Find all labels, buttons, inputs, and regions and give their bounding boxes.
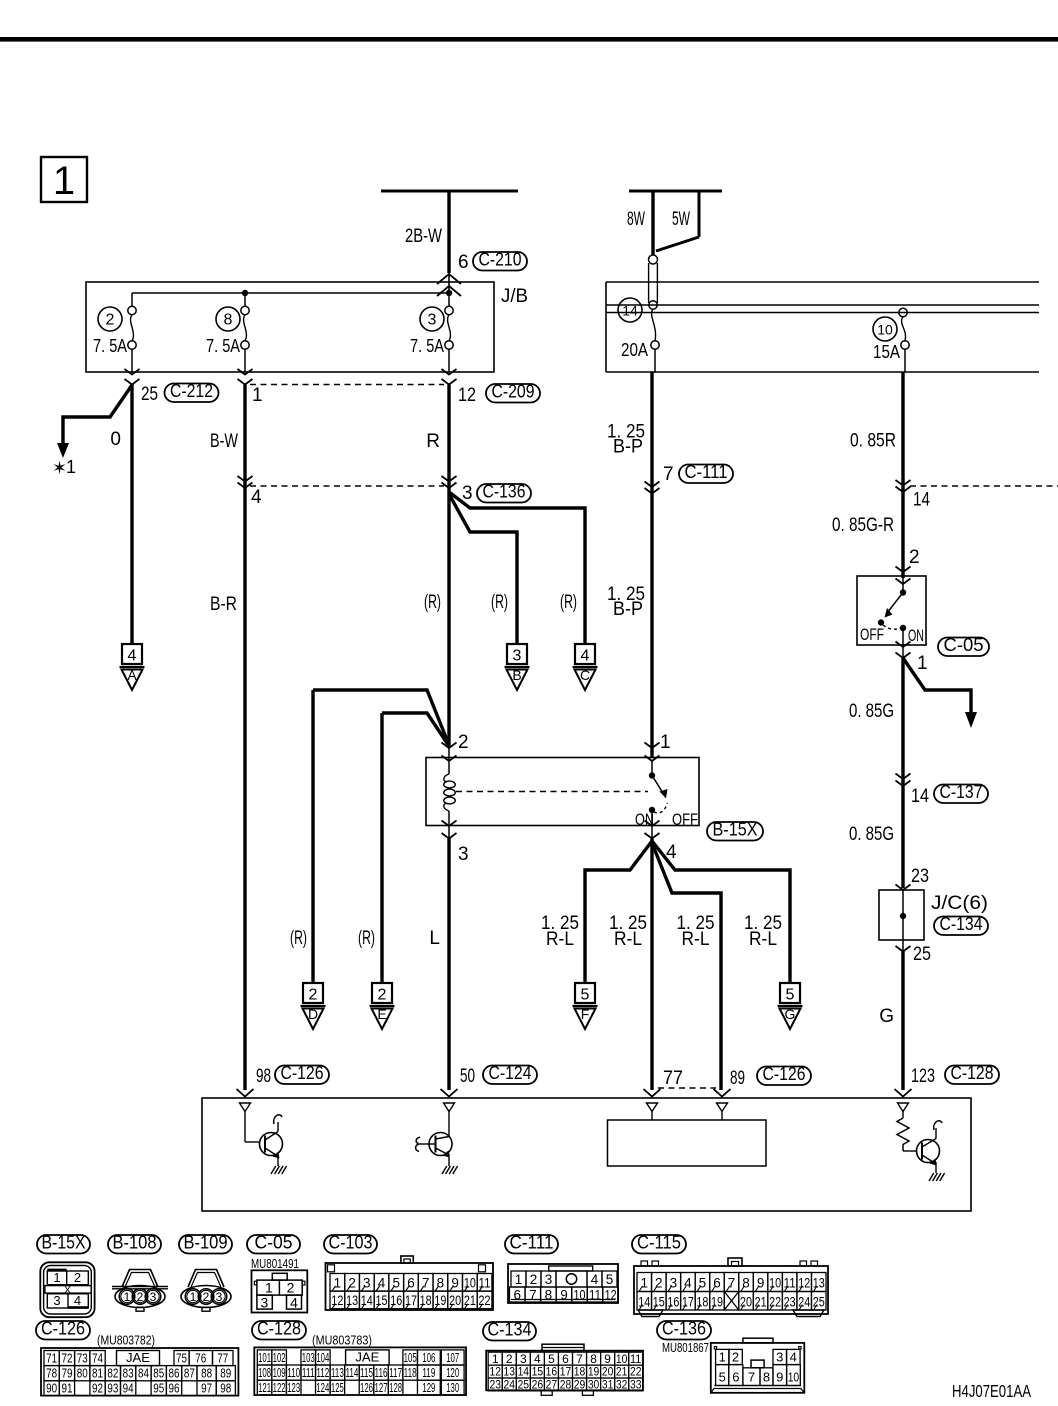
svg-text:118: 118 xyxy=(404,1366,417,1380)
svg-text:1: 1 xyxy=(265,1280,273,1296)
svg-text:0: 0 xyxy=(110,429,121,450)
svg-text:11: 11 xyxy=(630,1352,642,1366)
svg-text:B-R: B-R xyxy=(210,594,237,615)
svg-text:81: 81 xyxy=(92,1367,103,1381)
svg-text:C-128: C-128 xyxy=(257,1319,301,1339)
svg-text:B-15X: B-15X xyxy=(713,820,758,840)
svg-text:10: 10 xyxy=(877,322,893,338)
svg-text:9: 9 xyxy=(776,1370,783,1385)
svg-text:11: 11 xyxy=(589,1288,601,1303)
svg-text:16: 16 xyxy=(390,1293,402,1308)
svg-text:6: 6 xyxy=(458,252,469,273)
svg-text:C-126: C-126 xyxy=(763,1064,806,1084)
svg-text:25: 25 xyxy=(141,384,158,405)
svg-text:3: 3 xyxy=(216,1290,223,1304)
svg-text:98: 98 xyxy=(220,1381,231,1395)
svg-text:19: 19 xyxy=(434,1293,446,1308)
svg-text:1: 1 xyxy=(515,1272,523,1287)
svg-text:MU801867: MU801867 xyxy=(662,1340,709,1355)
svg-text:88: 88 xyxy=(201,1367,212,1381)
svg-text:4: 4 xyxy=(128,648,137,665)
svg-text:97: 97 xyxy=(201,1381,212,1395)
svg-text:J/C(6): J/C(6) xyxy=(931,893,988,914)
svg-text:89: 89 xyxy=(220,1367,231,1381)
svg-text:B-P: B-P xyxy=(613,599,643,620)
svg-text:0. 85R: 0. 85R xyxy=(850,431,896,452)
svg-text:7: 7 xyxy=(663,464,674,485)
svg-text:20A: 20A xyxy=(621,340,648,360)
svg-text:122: 122 xyxy=(273,1381,286,1395)
svg-text:116: 116 xyxy=(375,1366,388,1380)
svg-text:4: 4 xyxy=(534,1352,541,1366)
svg-text:22: 22 xyxy=(769,1295,781,1310)
svg-text:2: 2 xyxy=(74,1270,81,1285)
svg-text:7. 5A: 7. 5A xyxy=(206,336,240,356)
svg-text:15: 15 xyxy=(532,1365,544,1379)
svg-text:4: 4 xyxy=(378,1276,386,1291)
svg-text:1: 1 xyxy=(53,1270,60,1285)
svg-text:2: 2 xyxy=(106,312,115,329)
svg-text:JAE: JAE xyxy=(126,1350,150,1365)
svg-text:2B-W: 2B-W xyxy=(405,226,442,247)
svg-text:85: 85 xyxy=(153,1367,164,1381)
svg-text:B: B xyxy=(512,667,521,683)
svg-text:123: 123 xyxy=(911,1066,935,1087)
svg-text:28: 28 xyxy=(560,1378,572,1392)
svg-text:82: 82 xyxy=(107,1367,118,1381)
svg-text:108: 108 xyxy=(258,1366,271,1380)
svg-text:7: 7 xyxy=(748,1370,755,1385)
svg-text:10: 10 xyxy=(616,1352,628,1366)
svg-text:8: 8 xyxy=(224,312,233,329)
svg-text:8: 8 xyxy=(545,1288,553,1303)
svg-text:33: 33 xyxy=(630,1378,642,1392)
svg-text:7. 5A: 7. 5A xyxy=(410,336,444,356)
svg-text:(R): (R) xyxy=(290,928,307,949)
svg-text:27: 27 xyxy=(546,1378,558,1392)
svg-text:B-W: B-W xyxy=(210,431,238,452)
svg-text:50: 50 xyxy=(460,1066,475,1087)
svg-text:12: 12 xyxy=(489,1365,501,1379)
svg-text:6: 6 xyxy=(514,1288,522,1303)
svg-text:15: 15 xyxy=(376,1293,388,1308)
svg-text:126: 126 xyxy=(360,1381,373,1395)
svg-text:17: 17 xyxy=(560,1365,572,1379)
svg-text:119: 119 xyxy=(422,1366,435,1380)
svg-text:8W: 8W xyxy=(627,209,645,230)
svg-text:121: 121 xyxy=(258,1381,271,1395)
svg-text:C-124: C-124 xyxy=(489,1063,532,1083)
svg-text:2: 2 xyxy=(378,987,387,1004)
svg-text:25: 25 xyxy=(518,1378,530,1392)
svg-text:5: 5 xyxy=(581,987,590,1004)
svg-text:3: 3 xyxy=(261,1295,269,1311)
svg-text:13: 13 xyxy=(813,1276,825,1291)
svg-text:3: 3 xyxy=(150,1290,157,1304)
svg-text:32: 32 xyxy=(616,1378,628,1392)
svg-text:C-103: C-103 xyxy=(329,1233,373,1253)
svg-text:24: 24 xyxy=(504,1378,516,1392)
svg-text:12: 12 xyxy=(458,385,476,406)
svg-text:22: 22 xyxy=(479,1293,491,1308)
svg-text:1: 1 xyxy=(190,1290,197,1304)
svg-text:2: 2 xyxy=(309,987,318,1004)
svg-text:C-115: C-115 xyxy=(637,1233,681,1253)
svg-text:2: 2 xyxy=(732,1350,739,1365)
svg-text:20: 20 xyxy=(740,1295,752,1310)
svg-text:2: 2 xyxy=(530,1272,538,1287)
svg-text:0. 85G: 0. 85G xyxy=(849,824,894,845)
svg-text:21: 21 xyxy=(755,1295,767,1310)
svg-text:18: 18 xyxy=(420,1293,432,1308)
svg-text:4: 4 xyxy=(251,487,262,508)
svg-text:87: 87 xyxy=(184,1367,195,1381)
svg-text:3: 3 xyxy=(458,844,469,865)
svg-text:22: 22 xyxy=(630,1365,642,1379)
svg-text:4: 4 xyxy=(290,1295,298,1311)
svg-text:9: 9 xyxy=(451,1276,459,1291)
svg-text:C-134: C-134 xyxy=(940,914,983,934)
svg-text:C-05: C-05 xyxy=(255,1233,293,1253)
svg-text:11: 11 xyxy=(479,1276,491,1291)
svg-text:89: 89 xyxy=(730,1068,745,1089)
svg-text:2: 2 xyxy=(506,1352,513,1366)
svg-text:2: 2 xyxy=(909,547,920,568)
svg-text:14: 14 xyxy=(911,786,929,807)
svg-text:4: 4 xyxy=(591,1272,599,1287)
svg-text:13: 13 xyxy=(504,1365,516,1379)
svg-text:84: 84 xyxy=(138,1367,149,1381)
svg-text:C-126: C-126 xyxy=(281,1063,324,1083)
svg-text:124: 124 xyxy=(316,1381,329,1395)
svg-text:26: 26 xyxy=(532,1378,544,1392)
svg-text:3: 3 xyxy=(462,483,473,504)
svg-text:17: 17 xyxy=(682,1295,694,1310)
svg-text:115: 115 xyxy=(360,1366,373,1380)
svg-text:20: 20 xyxy=(449,1293,461,1308)
svg-text:1: 1 xyxy=(334,1276,342,1291)
svg-text:14: 14 xyxy=(913,490,930,511)
svg-text:4: 4 xyxy=(74,1293,81,1308)
svg-text:14: 14 xyxy=(622,303,638,319)
svg-text:1: 1 xyxy=(660,732,671,753)
svg-text:31: 31 xyxy=(602,1378,614,1392)
svg-text:8: 8 xyxy=(590,1352,597,1366)
svg-text:B-108: B-108 xyxy=(113,1233,157,1253)
svg-text:96: 96 xyxy=(169,1381,180,1395)
svg-text:18: 18 xyxy=(574,1365,586,1379)
svg-text:112: 112 xyxy=(316,1366,329,1380)
svg-text:94: 94 xyxy=(123,1381,134,1395)
svg-text:6: 6 xyxy=(407,1276,415,1291)
svg-text:77: 77 xyxy=(663,1068,683,1089)
svg-text:4: 4 xyxy=(790,1350,797,1365)
svg-text:12: 12 xyxy=(798,1276,810,1291)
svg-text:7: 7 xyxy=(422,1276,430,1291)
svg-text:R-L: R-L xyxy=(749,929,777,950)
svg-text:1: 1 xyxy=(66,457,76,477)
svg-text:D: D xyxy=(308,1006,318,1022)
svg-text:23: 23 xyxy=(911,866,929,887)
svg-text:19: 19 xyxy=(588,1365,600,1379)
svg-text:3: 3 xyxy=(428,312,437,329)
svg-text:18: 18 xyxy=(696,1295,708,1310)
svg-text:123: 123 xyxy=(287,1381,300,1395)
svg-text:98: 98 xyxy=(256,1066,271,1087)
svg-text:83: 83 xyxy=(123,1367,134,1381)
svg-text:71: 71 xyxy=(46,1351,57,1365)
svg-text:114: 114 xyxy=(345,1366,358,1380)
svg-text:5: 5 xyxy=(786,987,795,1004)
svg-text:1: 1 xyxy=(917,653,928,674)
svg-text:MU801491: MU801491 xyxy=(251,1256,299,1271)
svg-text:2: 2 xyxy=(348,1276,356,1291)
svg-text:25: 25 xyxy=(813,1295,825,1310)
svg-text:JAE: JAE xyxy=(355,1350,379,1365)
svg-text:95: 95 xyxy=(153,1381,164,1395)
svg-text:105: 105 xyxy=(404,1351,417,1365)
svg-text:2: 2 xyxy=(458,732,469,753)
svg-text:10: 10 xyxy=(788,1370,800,1385)
svg-text:G: G xyxy=(785,1006,796,1022)
svg-text:9: 9 xyxy=(560,1288,568,1303)
svg-text:3: 3 xyxy=(53,1293,60,1308)
svg-text:16: 16 xyxy=(667,1295,679,1310)
svg-text:3: 3 xyxy=(776,1350,783,1365)
svg-text:C-05: C-05 xyxy=(944,635,984,655)
svg-text:3: 3 xyxy=(513,648,522,665)
svg-text:A: A xyxy=(127,667,137,683)
svg-text:12: 12 xyxy=(605,1288,617,1303)
svg-text:H4J07E01AA: H4J07E01AA xyxy=(952,1381,1031,1401)
svg-text:5: 5 xyxy=(719,1370,726,1385)
svg-text:125: 125 xyxy=(331,1381,344,1395)
svg-text:74: 74 xyxy=(92,1351,103,1365)
svg-text:93: 93 xyxy=(107,1381,118,1395)
svg-text:128: 128 xyxy=(389,1381,402,1395)
svg-text:C-134: C-134 xyxy=(488,1320,532,1340)
svg-text:L: L xyxy=(429,928,440,949)
svg-text:10: 10 xyxy=(769,1276,781,1291)
svg-text:(MU803783): (MU803783) xyxy=(312,1333,372,1348)
svg-text:7. 5A: 7. 5A xyxy=(93,336,127,356)
svg-text:1: 1 xyxy=(124,1290,131,1304)
svg-text:23: 23 xyxy=(489,1378,501,1392)
svg-text:72: 72 xyxy=(61,1351,72,1365)
svg-text:117: 117 xyxy=(389,1366,402,1380)
svg-text:(R): (R) xyxy=(560,592,577,613)
svg-text:1: 1 xyxy=(53,159,75,203)
svg-text:30: 30 xyxy=(588,1378,600,1392)
svg-text:C-128: C-128 xyxy=(951,1063,994,1083)
svg-text:8: 8 xyxy=(437,1276,445,1291)
svg-text:C-136: C-136 xyxy=(483,482,526,502)
svg-text:(R): (R) xyxy=(491,592,508,613)
svg-text:C-137: C-137 xyxy=(940,782,983,802)
svg-text:80: 80 xyxy=(77,1367,88,1381)
svg-text:B-15X: B-15X xyxy=(42,1233,86,1253)
svg-text:20: 20 xyxy=(602,1365,614,1379)
svg-text:127: 127 xyxy=(375,1381,388,1395)
svg-text:C-136: C-136 xyxy=(662,1319,706,1339)
svg-text:14: 14 xyxy=(361,1293,373,1308)
svg-text:86: 86 xyxy=(169,1367,180,1381)
svg-text:B-P: B-P xyxy=(613,437,643,458)
svg-text:9: 9 xyxy=(604,1352,611,1366)
svg-text:21: 21 xyxy=(616,1365,628,1379)
svg-text:78: 78 xyxy=(46,1367,57,1381)
svg-text:120: 120 xyxy=(446,1366,459,1380)
svg-text:6: 6 xyxy=(562,1352,569,1366)
svg-text:14: 14 xyxy=(518,1365,530,1379)
svg-text:R-L: R-L xyxy=(682,929,710,950)
svg-text:C: C xyxy=(580,667,590,683)
svg-text:(R): (R) xyxy=(358,928,375,949)
svg-text:21: 21 xyxy=(464,1293,476,1308)
svg-text:12: 12 xyxy=(331,1293,343,1308)
svg-text:5: 5 xyxy=(392,1276,400,1291)
svg-text:4: 4 xyxy=(581,648,590,665)
svg-text:2: 2 xyxy=(203,1290,210,1304)
svg-text:109: 109 xyxy=(273,1366,286,1380)
svg-text:15A: 15A xyxy=(873,342,900,362)
svg-text:13: 13 xyxy=(346,1293,358,1308)
svg-text:106: 106 xyxy=(422,1351,435,1365)
svg-text:G: G xyxy=(879,1006,894,1027)
svg-text:5: 5 xyxy=(606,1272,614,1287)
svg-text:10: 10 xyxy=(464,1276,476,1291)
svg-text:✶: ✶ xyxy=(52,458,67,478)
svg-text:E: E xyxy=(377,1006,386,1022)
svg-text:73: 73 xyxy=(77,1351,88,1365)
svg-text:77: 77 xyxy=(217,1351,228,1365)
svg-text:7: 7 xyxy=(576,1352,583,1366)
svg-text:B-109: B-109 xyxy=(184,1233,228,1253)
svg-text:111: 111 xyxy=(302,1366,315,1380)
svg-text:75: 75 xyxy=(176,1351,187,1365)
svg-text:2: 2 xyxy=(137,1290,144,1304)
svg-text:3: 3 xyxy=(363,1276,371,1291)
svg-text:25: 25 xyxy=(913,944,931,965)
svg-text:R: R xyxy=(426,431,440,452)
svg-text:OFF: OFF xyxy=(860,625,884,644)
svg-text:29: 29 xyxy=(574,1378,586,1392)
svg-text:130: 130 xyxy=(446,1381,459,1395)
svg-text:J/B: J/B xyxy=(501,286,528,307)
svg-text:11: 11 xyxy=(784,1276,796,1291)
svg-text:OFF: OFF xyxy=(672,810,698,829)
svg-text:5: 5 xyxy=(548,1352,555,1366)
svg-text:79: 79 xyxy=(61,1367,72,1381)
svg-text:7: 7 xyxy=(529,1288,537,1303)
svg-text:0. 85G: 0. 85G xyxy=(849,701,894,722)
svg-text:19: 19 xyxy=(711,1295,723,1310)
svg-text:F: F xyxy=(581,1006,590,1022)
svg-text:10: 10 xyxy=(574,1288,586,1303)
svg-text:104: 104 xyxy=(316,1351,329,1365)
svg-text:0. 85G-R: 0. 85G-R xyxy=(832,515,894,536)
svg-text:90: 90 xyxy=(46,1381,57,1395)
svg-text:C-111: C-111 xyxy=(510,1233,554,1253)
svg-text:R-L: R-L xyxy=(614,929,642,950)
svg-text:C-126: C-126 xyxy=(41,1319,85,1339)
svg-text:1: 1 xyxy=(719,1350,726,1365)
svg-text:2: 2 xyxy=(287,1280,295,1296)
svg-text:1: 1 xyxy=(252,385,263,406)
svg-text:110: 110 xyxy=(287,1366,300,1380)
svg-text:1: 1 xyxy=(492,1352,499,1366)
svg-text:C-210: C-210 xyxy=(479,250,522,270)
svg-text:C-212: C-212 xyxy=(170,381,213,401)
svg-text:103: 103 xyxy=(302,1351,315,1365)
svg-text:C-111: C-111 xyxy=(685,462,728,482)
svg-text:102: 102 xyxy=(273,1351,286,1365)
svg-text:92: 92 xyxy=(92,1381,103,1395)
svg-text:3: 3 xyxy=(545,1272,553,1287)
svg-text:R-L: R-L xyxy=(546,929,574,950)
svg-text:23: 23 xyxy=(784,1295,796,1310)
svg-text:3: 3 xyxy=(520,1352,527,1366)
svg-text:C-209: C-209 xyxy=(492,382,535,402)
svg-text:15: 15 xyxy=(653,1295,665,1310)
svg-text:(R): (R) xyxy=(424,592,441,613)
svg-text:8: 8 xyxy=(763,1370,770,1385)
svg-text:76: 76 xyxy=(195,1351,206,1365)
svg-text:129: 129 xyxy=(422,1381,435,1395)
svg-text:107: 107 xyxy=(446,1351,459,1365)
svg-text:6: 6 xyxy=(732,1370,739,1385)
svg-text:5W: 5W xyxy=(672,209,690,230)
svg-text:16: 16 xyxy=(546,1365,558,1379)
svg-text:17: 17 xyxy=(405,1293,417,1308)
svg-text:(MU803782): (MU803782) xyxy=(97,1333,155,1348)
svg-text:113: 113 xyxy=(331,1366,344,1380)
svg-text:91: 91 xyxy=(61,1381,72,1395)
svg-text:101: 101 xyxy=(258,1351,271,1365)
